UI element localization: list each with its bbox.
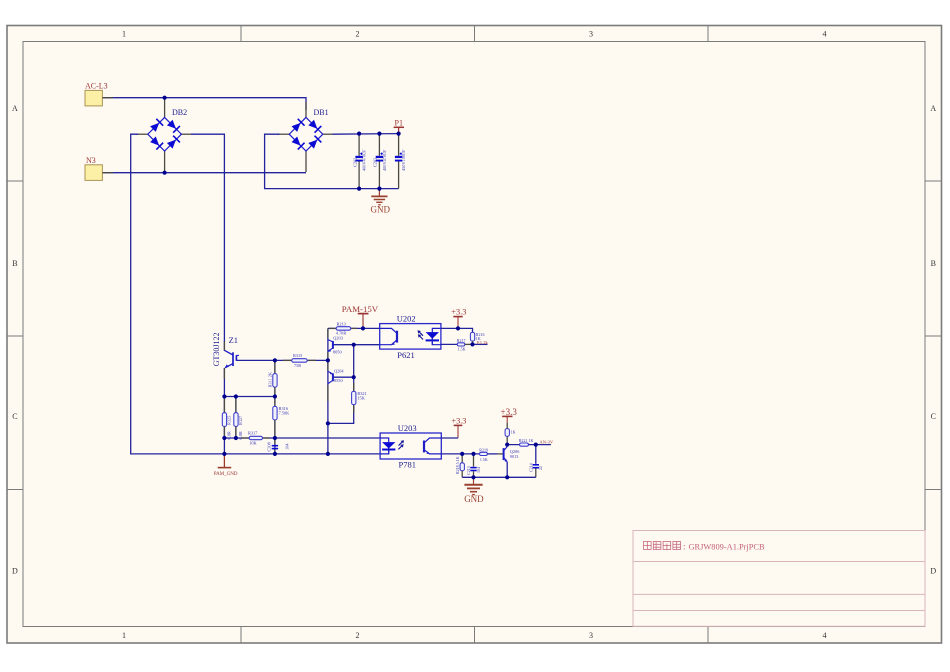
svg-text:A: A — [930, 104, 936, 113]
wire DB2 right to Z1 collector — [181, 133, 191, 135]
power +3.3 (Q206) — [501, 407, 518, 422]
svg-text:104: 104 — [476, 467, 481, 473]
resistor R213 — [329, 321, 357, 335]
junction (327.9,453.9) — [326, 452, 330, 456]
wire Q206 emitter column — [506, 462, 508, 477]
junction (363,328.4) — [361, 326, 365, 330]
svg-text:A: A — [12, 104, 18, 113]
junction (462.2,453.9) — [460, 452, 464, 456]
svg-text:450V100UF: 450V100UF — [401, 149, 406, 171]
svg-text:6.8R: 6.8R — [226, 431, 231, 439]
junction (359.1,188.6) — [357, 187, 361, 191]
wire R321 bottom to column — [328, 404, 354, 423]
svg-text:Q203: Q203 — [333, 336, 343, 341]
svg-text:9013: 9013 — [510, 454, 519, 459]
capacitor C214 — [528, 445, 543, 478]
port AC-L3 — [85, 81, 108, 106]
svg-text:D: D — [930, 567, 936, 576]
svg-text:B: B — [12, 259, 17, 268]
wire Q203/Q204 column — [327, 328, 329, 454]
svg-text:U202: U202 — [397, 314, 416, 324]
svg-text:2: 2 — [356, 30, 360, 39]
wire row y=438 — [224, 437, 249, 439]
wire stub port N3 — [103, 172, 114, 174]
svg-text:2: 2 — [356, 631, 360, 640]
junction (235.9,438) — [234, 436, 238, 440]
svg-text:AN-3V: AN-3V — [539, 439, 553, 444]
svg-text:GND: GND — [371, 205, 391, 215]
svg-text:PAM-15V: PAM-15V — [342, 304, 379, 314]
svg-text:1.5K: 1.5K — [480, 457, 488, 462]
wire U203 collector to +3.3 — [441, 437, 458, 439]
svg-text:C: C — [12, 412, 17, 421]
wire R327 column — [235, 397, 237, 439]
junction (458,328.4) — [456, 326, 460, 330]
power +3.3 (U203) — [451, 416, 466, 438]
svg-text:C: C — [931, 412, 936, 421]
svg-text:R219: R219 — [479, 447, 488, 452]
svg-text:400V470UF: 400V470UF — [382, 149, 387, 171]
junction (235.9,396.5) — [234, 394, 238, 398]
junction (473.5,453.9) — [471, 452, 475, 456]
svg-text:C213: C213 — [466, 466, 471, 475]
junction (507.2,477.3) — [505, 475, 509, 479]
junction (224.4,396.5) — [222, 394, 226, 398]
junction (327.9,360.4) — [326, 358, 330, 362]
junction (507.2,444.6) — [505, 443, 509, 447]
svg-text::: : — [683, 542, 686, 552]
svg-text:DB1: DB1 — [314, 108, 329, 117]
power +3.3 (U202) — [451, 308, 466, 329]
port N3 — [85, 156, 102, 180]
svg-text:1K: 1K — [511, 430, 516, 435]
svg-text:P1: P1 — [395, 119, 403, 128]
wire DB1 top pin — [305, 102, 307, 117]
junction (164.6,172.7) — [163, 171, 167, 175]
svg-text:R213: R213 — [337, 321, 346, 326]
wire net AN-3V — [528, 444, 551, 446]
transistor Q203 — [328, 336, 343, 355]
junction (327.9,423.4) — [326, 421, 330, 425]
capacitor C203 — [373, 134, 387, 189]
junction (472.5,344.4) — [470, 342, 474, 346]
wire U203 emitter row — [441, 453, 479, 455]
wire PAM ground rail y=453.9 — [224, 453, 380, 455]
svg-text:GT30J122: GT30J122 — [212, 333, 221, 367]
junction (164.6,97.7) — [163, 96, 167, 100]
svg-text:75R: 75R — [294, 363, 301, 368]
svg-text:4: 4 — [823, 30, 827, 39]
svg-text:U203: U203 — [398, 423, 417, 433]
resistor R220 — [505, 423, 515, 437]
wire DB2 bottom pin — [164, 151, 166, 172]
bridge DB2 — [148, 108, 187, 151]
svg-text:R317: R317 — [248, 431, 258, 436]
optocoupler U202 P621 — [380, 314, 441, 360]
wire Q204 base — [333, 376, 354, 378]
wire bottom right rail y=477.3 — [462, 476, 536, 478]
wire DB1 bottom pin — [305, 151, 307, 172]
capacitor C308 — [267, 438, 290, 454]
svg-text:C308: C308 — [267, 442, 272, 451]
svg-text:15K: 15K — [357, 395, 365, 400]
resistor R316 — [273, 397, 290, 439]
svg-text:D: D — [12, 567, 18, 576]
transistor Q204 — [328, 368, 344, 383]
svg-text:R311 2K: R311 2K — [268, 371, 273, 387]
svg-text:B: B — [931, 259, 936, 268]
junction (353.7,377.2) — [352, 375, 356, 379]
resistor R327 — [234, 397, 243, 440]
svg-text:1: 1 — [122, 30, 126, 39]
wire row y=396.5 — [224, 396, 275, 398]
wire DB2 left to lower rail — [136, 133, 148, 135]
capacitor C202 — [352, 134, 366, 189]
junction (379.4,133.6) — [377, 132, 381, 136]
wire DB1 left to cap bottom rail — [278, 133, 290, 135]
svg-text:R218 5.1K: R218 5.1K — [455, 456, 460, 474]
junction (473.5,477.3) — [471, 475, 475, 479]
junction (224.4,438) — [222, 436, 226, 440]
junction (274.9,360.4) — [273, 358, 277, 362]
junction (274.9,438) — [273, 436, 277, 440]
svg-text:8550: 8550 — [334, 378, 343, 383]
svg-text:GND: GND — [464, 494, 484, 504]
power PAM-15V — [342, 304, 379, 329]
svg-text:Q204: Q204 — [334, 368, 344, 373]
junction (353.7,344.7) — [352, 343, 356, 347]
svg-text:PAM_GND: PAM_GND — [214, 472, 238, 477]
wire AC-L3 to DB1 top — [103, 98, 307, 110]
transistor Z1 GT30J122 — [212, 333, 239, 369]
title text 图纸名称: GRJW809-A1.PrjPCB — [644, 542, 681, 550]
svg-text:C202: C202 — [352, 158, 357, 167]
resistor R311 — [268, 360, 277, 396]
title block — [633, 531, 925, 627]
junction (274.9,396.5) — [273, 394, 277, 398]
svg-text:+3.3: +3.3 — [451, 308, 466, 317]
optocoupler U203 P781 — [380, 423, 441, 469]
resistor R218 — [455, 454, 465, 477]
svg-text:4: 4 — [823, 631, 827, 640]
svg-text:+3.3: +3.3 — [451, 416, 466, 425]
resistor R325 — [222, 397, 231, 440]
svg-text:8050: 8050 — [333, 350, 342, 355]
transistor Q206 — [504, 447, 521, 463]
svg-text:P621: P621 — [397, 350, 414, 360]
svg-text:3: 3 — [589, 30, 593, 39]
svg-text:E1.2k: E1.2k — [477, 340, 489, 345]
resistor R321 — [352, 383, 367, 413]
junction (274.9,453.9) — [273, 452, 277, 456]
wire R213 row y=328.4 — [328, 327, 336, 329]
svg-text:R217: R217 — [457, 338, 466, 343]
ground PAM_GND — [214, 454, 238, 477]
svg-text:N3: N3 — [86, 156, 96, 165]
resistor R216 — [470, 332, 484, 345]
svg-text:22: 22 — [538, 466, 543, 470]
junction (379.4,188.6) — [377, 187, 381, 191]
capacitor C204 — [395, 134, 406, 189]
svg-text:C203: C203 — [373, 158, 378, 167]
wire DB1 right to cap top rail — [323, 133, 333, 135]
resistor R219 — [479, 447, 503, 462]
wire net E1.2k — [473, 343, 488, 345]
pin P1 — [394, 119, 404, 134]
resistor R317 — [241, 431, 270, 446]
svg-text:C214: C214 — [528, 463, 533, 472]
svg-text:R327: R327 — [238, 415, 243, 425]
ground GND bottom — [464, 477, 484, 504]
wire R311/R316 column — [274, 360, 276, 454]
svg-text:1: 1 — [122, 631, 126, 640]
wire Z1 emitter column — [223, 368, 225, 454]
svg-text:1.5K: 1.5K — [458, 347, 466, 352]
junction (359.1,133.6) — [357, 132, 361, 136]
svg-text:GRJW809-A1.PrjPCB: GRJW809-A1.PrjPCB — [689, 543, 765, 552]
wire gate row y=360.4 — [236, 359, 291, 361]
svg-text:Z1: Z1 — [229, 335, 238, 345]
resistor R221 — [519, 438, 534, 446]
svg-text:AC-L3: AC-L3 — [85, 81, 108, 90]
svg-text:104: 104 — [284, 443, 289, 450]
svg-text:400V470UF: 400V470UF — [362, 149, 367, 171]
capacitor C213 — [466, 454, 481, 477]
wire Q206 collector column — [507, 445, 519, 447]
svg-text:7.50K: 7.50K — [279, 411, 291, 416]
svg-text:3: 3 — [589, 631, 593, 640]
bridge DB1 — [289, 108, 328, 151]
svg-text:R221 1K: R221 1K — [519, 438, 534, 443]
resistor R315 — [283, 353, 316, 368]
svg-text:P781: P781 — [399, 460, 416, 470]
wire U202 right top — [441, 328, 473, 332]
junction (535.8,444.6) — [534, 443, 538, 447]
wire base node column x=353.7 — [333, 344, 380, 346]
wire DB2 top pin — [164, 98, 166, 117]
svg-text:R325: R325 — [226, 416, 231, 425]
wire N3 rail — [103, 172, 307, 174]
wire U202 right bottom — [441, 343, 457, 345]
svg-text:10K: 10K — [249, 440, 257, 445]
junction (398.6,133.6) — [397, 132, 401, 136]
svg-text:DB2: DB2 — [172, 108, 187, 117]
junction (224.4,453.9) — [222, 452, 226, 456]
ground GND top — [371, 189, 391, 215]
svg-text:R315: R315 — [293, 353, 302, 358]
resistor R217 — [457, 338, 473, 352]
wire stub port AC-L3 — [103, 97, 114, 99]
